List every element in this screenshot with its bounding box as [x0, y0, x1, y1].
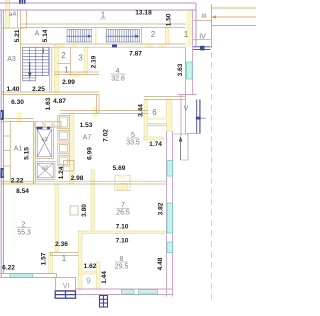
window south wall room8 right	[139, 290, 158, 295]
stairwell right wall	[50, 47, 52, 92]
svg-text:3.63: 3.63	[177, 63, 184, 76]
leader arrowhead	[211, 15, 216, 18]
svg-text:5.69: 5.69	[113, 165, 126, 172]
elevator shaft2 outer	[36, 162, 56, 180]
flight west center line arrow	[67, 35, 92, 38]
svg-text:1.53: 1.53	[80, 122, 93, 129]
svg-text:2.98: 2.98	[71, 175, 84, 182]
elevator shaft1 inner + X	[37, 129, 52, 157]
rooms block verticals	[70, 47, 72, 74]
svg-text:8.54: 8.54	[16, 188, 29, 195]
window south wall room2	[10, 274, 33, 277]
wall band left of corridor, x54	[55, 45, 59, 93]
room6 south wall band	[144, 137, 164, 140]
room7-8 divider band	[79, 231, 167, 234]
elevator block west wall	[33, 122, 35, 184]
wall band A7 west	[70, 114, 75, 184]
svg-text:6: 6	[152, 108, 157, 117]
stair grid top-left treads (L-shaped)	[23, 47, 49, 80]
svg-text:5.14: 5.14	[42, 29, 49, 42]
door opening room5 south wall	[119, 175, 127, 179]
balcony V bottom line	[187, 100, 201, 134]
room7 west wall band	[91, 170, 95, 231]
elevator shaft2 inner + X	[37, 163, 53, 178]
wall y92-94.5 horizontal	[1, 92, 99, 95]
wall band top-left vertical	[6, 0, 10, 28]
vent box on corridor wall	[70, 206, 78, 215]
balcony VI box	[56, 278, 76, 291]
room2 south exterior wall	[0, 274, 57, 278]
leader line top y8	[212, 7, 256, 9]
svg-text:2: 2	[61, 51, 66, 60]
top rooms wall x141.5	[141, 28, 143, 45]
room4 bar	[111, 73, 126, 75]
a4 cell inner verticals	[18, 10, 27, 28]
east exterior wall fill above window	[186, 11, 192, 47]
right exterior wall top vertical	[195, 3, 197, 47]
svg-text:2.22: 2.22	[11, 178, 24, 185]
svg-text:6.30: 6.30	[11, 99, 24, 106]
east wall rooms7/8 double	[167, 131, 173, 297]
svg-text:2.36: 2.36	[55, 241, 68, 248]
wall band between top rooms 2 and 1	[166, 28, 170, 45]
door opening room4 bottom wall	[93, 106, 99, 117]
svg-text:1.40: 1.40	[7, 86, 20, 93]
bathroom block boxes	[58, 116, 70, 129]
room6 west wall band	[144, 100, 148, 141]
svg-text:1: 1	[101, 11, 106, 20]
svg-text:29.5: 29.5	[115, 264, 129, 271]
svg-text:А3: А3	[7, 56, 16, 63]
svg-text:1: 1	[64, 66, 69, 75]
leader line with arrow y17	[215, 16, 256, 18]
room6 divider wall	[148, 124, 167, 126]
wall band rooms2-3 divider	[84, 48, 88, 75]
svg-text:а4: а4	[9, 11, 17, 18]
room9 west wall band	[79, 231, 83, 290]
corridor 1 underline	[100, 18, 106, 20]
lobby wall y118.5-121.5	[1, 119, 33, 122]
room2 east wall band	[55, 184, 59, 252]
room2 SE corner wall band	[49, 253, 53, 274]
svg-text:5.21: 5.21	[14, 29, 21, 42]
wall band west of shafts	[34, 122, 36, 184]
entrance stair box	[174, 134, 189, 160]
svg-text:а3: а3	[41, 137, 47, 143]
svg-text:9: 9	[86, 277, 91, 286]
room6 east wall double	[181, 95, 186, 137]
room2 bar	[17, 227, 31, 229]
svg-text:32.6: 32.6	[111, 76, 125, 83]
window below entrance stair	[160, 160, 162, 162]
room7 bar	[117, 207, 130, 209]
leader line y25.5	[211, 25, 256, 27]
window south wall room8 left	[122, 290, 135, 295]
svg-text:1.62: 1.62	[84, 263, 97, 270]
svg-text:а2: а2	[42, 166, 48, 172]
south exterior wall rooms9/8	[76, 289, 173, 295]
svg-text:1.50: 1.50	[166, 13, 173, 26]
door opening room block bottom	[70, 72, 81, 78]
balcony VI rail block	[55, 291, 75, 298]
boxes above shaft1	[35, 122, 43, 128]
top exterior wall inner line	[0, 9, 196, 11]
room6 faint divider	[148, 118, 167, 121]
svg-text:1.44: 1.44	[101, 271, 108, 284]
balcony V rail double line with tick	[197, 100, 200, 134]
east wall band rooms4 x185.5-192.5	[186, 11, 193, 95]
window east wall y242-252	[167, 242, 173, 253]
entrance stair up-arrow	[179, 136, 183, 160]
left exterior wall double	[1, 10, 3, 278]
wall under shafts / room5 north.. long double y181-184	[1, 181, 166, 184]
svg-text:33.5: 33.5	[126, 140, 140, 147]
corridor south wall double line (below stair flights)	[21, 44, 186, 47]
tiny hatch above top wall	[19, 0, 26, 4]
room9 north wall band	[79, 271, 101, 274]
svg-text:2.25: 2.25	[32, 86, 45, 93]
svg-text:7.02: 7.02	[103, 129, 110, 142]
wall x96.5-99 vertical	[97, 95, 100, 114]
left cell vertical x20.5	[20, 10, 22, 92]
cell a4 bottom	[1, 27, 20, 29]
svg-text:А: А	[35, 31, 40, 38]
balcony III/IV divider	[193, 21, 212, 40]
svg-text:V: V	[184, 106, 189, 113]
svg-text:3.82: 3.82	[157, 202, 164, 215]
door frame box corridor-room7	[115, 176, 130, 191]
stair walk line with down arrow	[28, 49, 43, 78]
svg-text:А1: А1	[14, 146, 23, 153]
svg-text:2.19: 2.19	[91, 55, 98, 68]
flight west treads	[67, 30, 92, 43]
svg-text:4.48: 4.48	[157, 257, 164, 270]
door openings on wall y44	[56, 44, 64, 48]
lobby left column cells	[3, 122, 10, 182]
svg-text:26.5: 26.5	[116, 210, 130, 217]
room5 bar	[127, 137, 140, 139]
svg-text:1.74: 1.74	[149, 141, 162, 148]
hall1 north wall double	[51, 253, 79, 257]
svg-text:IV: IV	[199, 34, 206, 41]
svg-text:3.44: 3.44	[138, 104, 145, 117]
corridor north wall double line	[21, 24, 186, 28]
svg-text:6.22: 6.22	[2, 265, 15, 272]
svg-text:13.18: 13.18	[135, 10, 152, 17]
corridor wall tick	[112, 45, 117, 48]
svg-text:1.63: 1.63	[45, 97, 52, 110]
svg-text:1.57: 1.57	[40, 252, 47, 265]
svg-text:3: 3	[78, 54, 83, 63]
elevator shaft1 outer	[36, 128, 54, 159]
window east wall y203-233	[167, 203, 173, 233]
window east wall y160-176	[167, 161, 173, 177]
svg-text:7.10: 7.10	[116, 238, 129, 245]
window east wall room4	[186, 62, 192, 79]
rooms block bottom double	[54, 72, 99, 75]
svg-text:1.24: 1.24	[58, 166, 65, 179]
dark marks above shaft1	[37, 127, 43, 130]
wall band above east wall	[167, 100, 173, 132]
room9 east wall band	[97, 262, 101, 289]
svg-text:VI: VI	[63, 283, 70, 290]
section dashed line	[211, 52, 213, 300]
svg-text:55.3: 55.3	[17, 230, 31, 237]
svg-text:2.99: 2.99	[62, 79, 75, 86]
rooms 2/1 divider	[58, 63, 71, 65]
door opening lobby wall	[17, 112, 22, 124]
svg-text:1: 1	[62, 254, 67, 263]
top exterior wall outer line	[0, 2, 196, 4]
svg-text:7.10: 7.10	[116, 224, 129, 231]
hatched box below south wall	[100, 296, 108, 308]
wall fill below shafts	[2, 182, 34, 184]
room6 north wall double	[144, 97, 186, 100]
flight east center line arrow	[107, 35, 140, 38]
svg-text:1: 1	[184, 30, 189, 39]
flight east treads	[107, 30, 140, 43]
section line solid top part	[211, 4, 213, 48]
svg-text:4.87: 4.87	[53, 98, 66, 105]
balcony IV rail double line with tick	[193, 47, 211, 50]
svg-text:6.99: 6.99	[87, 147, 94, 160]
svg-text:5.15: 5.15	[24, 147, 31, 160]
svg-text:7.87: 7.87	[129, 51, 142, 58]
svg-text:2: 2	[151, 30, 156, 39]
svg-text:А7: А7	[83, 135, 92, 142]
left wall dark segments	[0, 110, 3, 120]
room4 south wall double	[60, 111, 148, 114]
svg-text:3.80: 3.80	[81, 204, 88, 217]
room8 bar	[115, 261, 128, 263]
corner below balcony IV	[178, 94, 197, 96]
landing boundary marks	[95, 28, 97, 44]
svg-text:III: III	[201, 13, 207, 20]
